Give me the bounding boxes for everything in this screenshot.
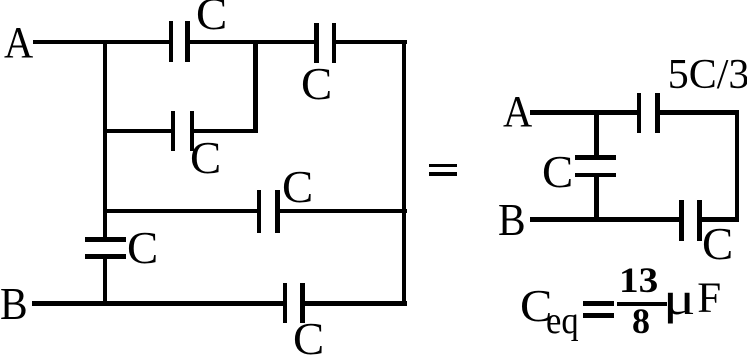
value label C (capacitor C9): [702, 222, 733, 267]
wire middle vertical junction (top branch to parallel branch): [253, 40, 258, 134]
value label C (capacitor C3): [190, 136, 221, 181]
value label 5C/3 (capacitor C7): [668, 54, 747, 96]
wire third branch left segment: [105, 209, 259, 214]
wire from C9 to bottom-right corner: [701, 217, 739, 222]
wire middle vertical lower segment (C8 to B wire): [594, 177, 599, 222]
formula unit F: [697, 277, 721, 320]
wire right vertical of equivalent network: [735, 110, 740, 222]
value label C (capacitor C1): [196, 0, 227, 37]
wire from C1 to C2 along top branch: [187, 40, 316, 45]
capacitor C4 (third branch): [257, 190, 262, 233]
formula text Ceq: C: [520, 284, 552, 329]
value label C (capacitor C2): [301, 62, 332, 107]
capacitor C8 (vertical, middle of equivalent network): [575, 155, 616, 160]
node B (left network): [0, 282, 27, 327]
capacitor C6 (bottom branch): [283, 283, 288, 324]
wire from C2 to top-right corner: [334, 40, 407, 45]
node B (equivalent network): [498, 198, 526, 243]
equals sign between the two networks: [429, 164, 457, 167]
wire from C6 to bottom-right corner: [302, 301, 407, 306]
wire from node B to capacitor C6: [32, 301, 285, 306]
value label C (capacitor C5): [127, 226, 158, 271]
capacitor C2 (top branch right): [314, 23, 319, 63]
value label C (capacitor C6): [293, 317, 324, 355]
capacitor C1 (top branch): [169, 21, 174, 63]
wire from node A to top-left junction: [33, 40, 172, 45]
wire left vertical bus upper segment: [103, 40, 108, 242]
formula denominator 8: [632, 303, 650, 339]
node A (equivalent network): [503, 90, 532, 134]
value label C (capacitor C8): [542, 150, 573, 195]
capacitor C9 (bottom branch of equivalent network): [679, 200, 684, 241]
formula text Ceq: eq subscript: [546, 302, 579, 340]
wire second branch left segment: [105, 129, 173, 134]
value label C (capacitor C4): [282, 165, 313, 210]
capacitor C3 (parallel branch): [171, 111, 175, 152]
wire left vertical bus lower segment: [103, 254, 108, 306]
wire from node B to capacitor C9: [530, 217, 681, 222]
wire second branch right segment: [192, 129, 258, 134]
formula unit mu: [663, 276, 696, 322]
wire third branch right segment: [277, 209, 407, 214]
wire from C7 to top-right corner: [659, 110, 740, 115]
capacitor C7 (5C/3, top branch of equivalent network): [637, 93, 642, 133]
wire right vertical bus: [402, 40, 407, 306]
wire middle vertical upper segment (A wire to C8): [594, 112, 599, 159]
wire from node A to capacitor C7: [530, 110, 638, 115]
node A (left network): [4, 21, 33, 65]
capacitor C5 (vertical, on left bus): [85, 237, 126, 242]
formula numerator 13: [619, 262, 658, 298]
formula equals sign: [583, 301, 614, 306]
formula fraction bar: [617, 302, 667, 306]
